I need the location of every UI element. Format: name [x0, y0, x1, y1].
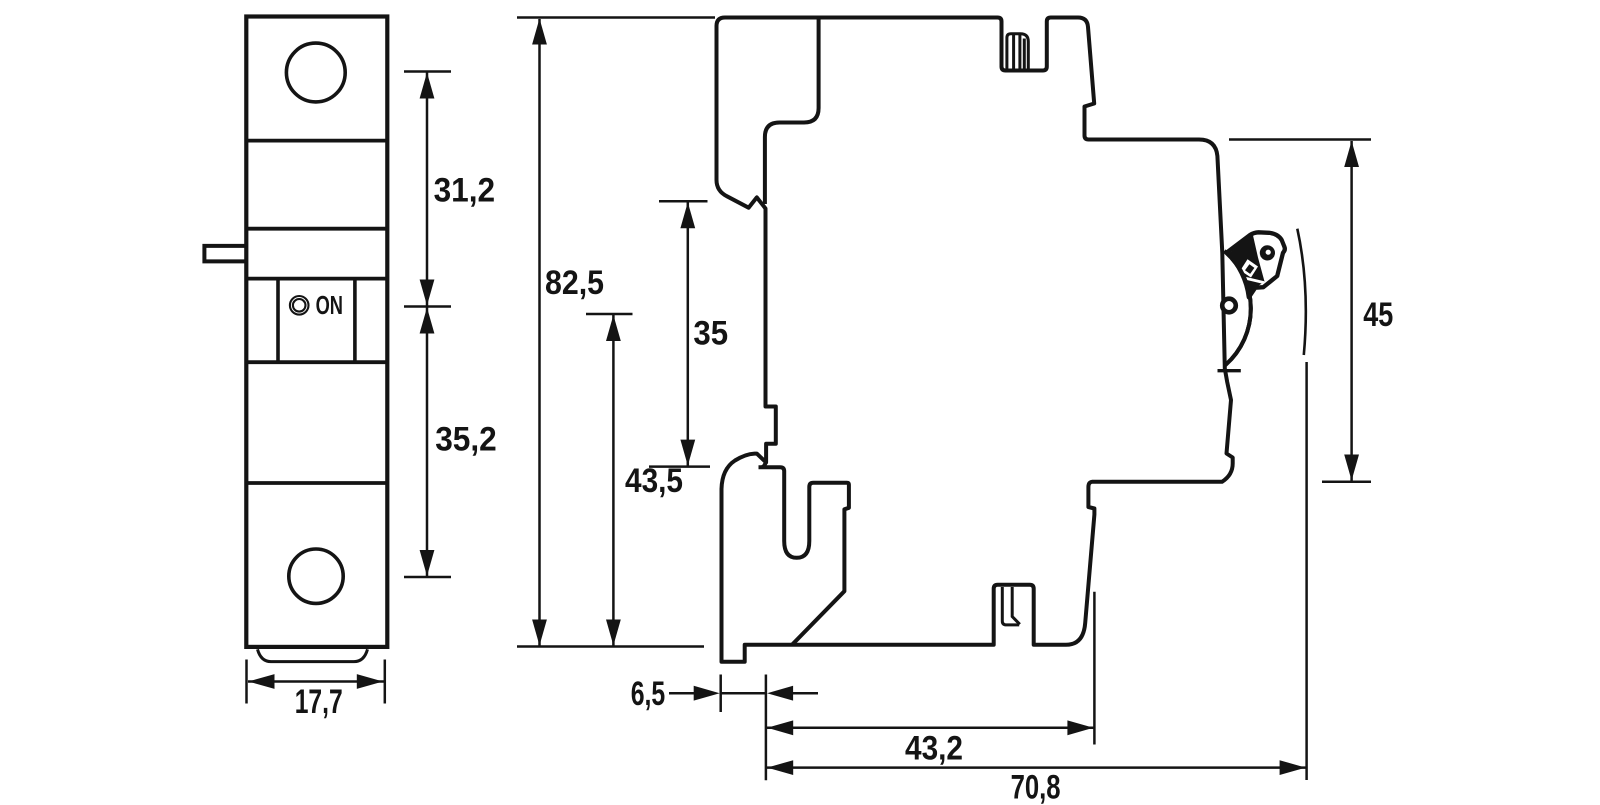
toggle pivot pin	[1222, 299, 1236, 313]
front view body outline	[246, 17, 387, 647]
front cover ledge tick	[1218, 369, 1241, 372]
dim 6,5 leader right	[793, 692, 818, 695]
arrow 17,7 right	[357, 674, 383, 689]
arrow 31,2 up	[420, 73, 435, 99]
lever shank black wedge	[1228, 235, 1265, 297]
toggle paddle right edge	[353, 280, 357, 361]
dim 82,5 line	[538, 19, 541, 646]
bottom DIN latch detail	[1002, 587, 1020, 625]
arrow 35 top	[680, 202, 695, 228]
toggle recess bottom line	[246, 360, 387, 364]
lever hole white dot	[1266, 250, 1271, 255]
dim 70,8 line	[766, 766, 1307, 769]
extension of bottom edge	[517, 645, 704, 648]
svg-text:43,5: 43,5	[625, 462, 683, 500]
svg-text:35,2: 35,2	[435, 421, 497, 459]
lever facet white quad	[1240, 259, 1258, 277]
shared extension line x=766	[765, 675, 768, 781]
arrow 82,5 top	[532, 19, 547, 45]
toggle recess top line	[246, 277, 387, 281]
extension of top edge	[517, 16, 715, 19]
arrow 43,2 right	[1067, 720, 1093, 735]
arrow 43,5 bottom	[606, 620, 621, 646]
dim 17,7 line	[248, 680, 384, 683]
dim 43,5 line	[612, 315, 615, 646]
terminal cover separation line upper	[246, 139, 387, 143]
svg-text:6,5: 6,5	[631, 675, 666, 713]
top DIN latch boss	[1007, 34, 1028, 70]
toggle recess arc overlay	[1224, 251, 1251, 365]
dim 17,7 extension right	[384, 660, 387, 704]
arrow 45 bottom	[1344, 455, 1359, 481]
arrow 35,2 up	[420, 308, 435, 334]
handle travel arc	[1297, 229, 1306, 355]
lever facet black hole	[1245, 264, 1254, 274]
dim 31,2/35,2 vertical line	[426, 72, 429, 578]
toggle lever body	[1227, 232, 1285, 297]
toggle recess arc	[1224, 251, 1251, 365]
tick bottom screw center	[404, 576, 451, 579]
extension 45 top	[1229, 138, 1371, 141]
arrow 6,5 left-pointing	[767, 686, 793, 701]
tick 43,5 top	[586, 313, 633, 316]
dim 6,5 leader left	[669, 692, 695, 695]
extension 70,8 right (travel arc)	[1305, 362, 1308, 780]
ON indicator outer ring	[290, 296, 309, 315]
lever hole black disc	[1260, 245, 1275, 260]
front plate upper line	[246, 227, 387, 231]
svg-text:35: 35	[693, 315, 728, 353]
bottom foot	[258, 649, 368, 661]
arrow 43,5 top	[606, 315, 621, 341]
arrow 17,7 left	[249, 674, 275, 689]
svg-text:31,2: 31,2	[434, 171, 496, 209]
top screw terminal circle	[286, 43, 345, 102]
svg-text:43,2: 43,2	[905, 730, 963, 768]
tick 35 top	[659, 200, 708, 203]
dim 45 line	[1350, 141, 1353, 481]
svg-text:70,8: 70,8	[1011, 769, 1061, 805]
dim 35 line	[687, 202, 690, 466]
arrow 31,2 down	[420, 280, 435, 306]
terminal hook inner cutout	[765, 20, 819, 205]
tick top screw center	[404, 70, 451, 73]
toggle paddle left edge	[276, 280, 280, 361]
DIN rail clip: ledge, spring slot and sliding clip	[759, 462, 849, 645]
dim 6,5 middle segment	[721, 692, 766, 695]
arrow 45 top	[1344, 141, 1359, 167]
arrow 82,5 bottom	[532, 620, 547, 646]
side view main outline	[717, 18, 1233, 662]
extension 45 bottom tick	[1322, 481, 1371, 484]
arrow 35,2 down	[420, 550, 435, 576]
tick ON center	[404, 305, 451, 308]
front plate lower line	[246, 481, 387, 485]
dim 17,7 extension left	[245, 660, 248, 704]
lever lower white sliver	[1244, 278, 1265, 283]
arrow 70,8 left	[767, 760, 793, 775]
arrow 6,5 right-pointing	[694, 686, 720, 701]
extension 43,2 right	[1093, 592, 1096, 745]
svg-text:82,5: 82,5	[545, 264, 604, 302]
arrow 35 bottom	[680, 440, 695, 466]
dim 6,5 extension 1	[719, 675, 722, 713]
svg-text:45: 45	[1363, 296, 1393, 334]
DIN clip tab left	[204, 246, 246, 262]
bottom screw terminal circle	[289, 549, 343, 603]
ON indicator inner ring	[293, 299, 306, 312]
svg-text:17,7: 17,7	[295, 683, 343, 721]
arrow 70,8 right	[1280, 760, 1306, 775]
arrow 43,2 left	[767, 720, 793, 735]
svg-text:ON: ON	[316, 292, 343, 320]
dim 43,2 line	[766, 727, 1094, 730]
tick 35 bottom	[649, 465, 710, 468]
